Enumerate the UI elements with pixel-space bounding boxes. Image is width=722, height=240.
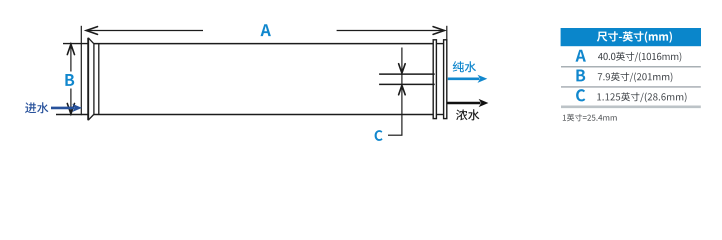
- concentrate label 浓水: [456, 109, 479, 120]
- pure water arrow: [448, 78, 480, 81]
- concentrate arrow: [447, 102, 481, 105]
- end cap bottom bevel: [88, 115, 94, 121]
- table letter C: [576, 89, 585, 101]
- label C (dimension): [375, 130, 383, 141]
- membrane shell top edge: [94, 43, 434, 45]
- concentrate-end cap outer ring: [444, 40, 447, 119]
- dimension C upper line with down arrowhead: [401, 48, 403, 74]
- permeate tube upper wall: [379, 73, 435, 75]
- shell edge between rings top: [436, 43, 443, 45]
- shell left edge line: [93, 44, 95, 115]
- dimension A line left segment with arrowhead: [87, 30, 204, 32]
- permeate tube lower wall: [379, 83, 435, 85]
- table row C value: [597, 92, 686, 102]
- end cap joint line: [98, 44, 100, 115]
- dimension B line lower segment with down arrowhead: [70, 89, 72, 114]
- B extension line top: [63, 43, 88, 45]
- wire: A extension line right: [446, 26, 448, 40]
- end cap top bevel: [88, 38, 94, 44]
- table row separator 1: [561, 66, 701, 68]
- dimension C lower line with up arrowhead: [401, 85, 403, 135]
- table header title 尺寸-英寸(mm): [597, 31, 672, 43]
- table row separator 2: [561, 86, 701, 88]
- dimension B line upper segment with up arrowhead: [70, 44, 72, 71]
- label A (dimension): [261, 24, 271, 36]
- feed water label 进水: [25, 102, 48, 113]
- table row A value: [598, 52, 681, 62]
- pure water label 纯水: [453, 61, 476, 72]
- dimension A line right segment with arrowhead: [337, 30, 445, 32]
- shell edge between rings bottom: [436, 114, 443, 116]
- table row B value: [598, 72, 673, 82]
- end cap face plate (feed end): [87, 38, 89, 120]
- wire: feed-end face / A extension line: [80, 26, 82, 115]
- C leader line: [388, 134, 403, 136]
- label B (dimension): [65, 74, 74, 86]
- table footnote 1英寸=25.4mm: [563, 114, 617, 121]
- table bottom border: [561, 106, 701, 109]
- B extension line bottom: [56, 114, 88, 116]
- dimension C line middle crossing segment: [401, 73, 403, 85]
- membrane shell bottom edge: [94, 114, 434, 116]
- concentrate-end cap inner ring: [433, 40, 436, 119]
- table letter B: [576, 70, 585, 82]
- table letter A: [576, 50, 586, 62]
- feed water arrow: [51, 107, 75, 110]
- table header background: [561, 28, 701, 46]
